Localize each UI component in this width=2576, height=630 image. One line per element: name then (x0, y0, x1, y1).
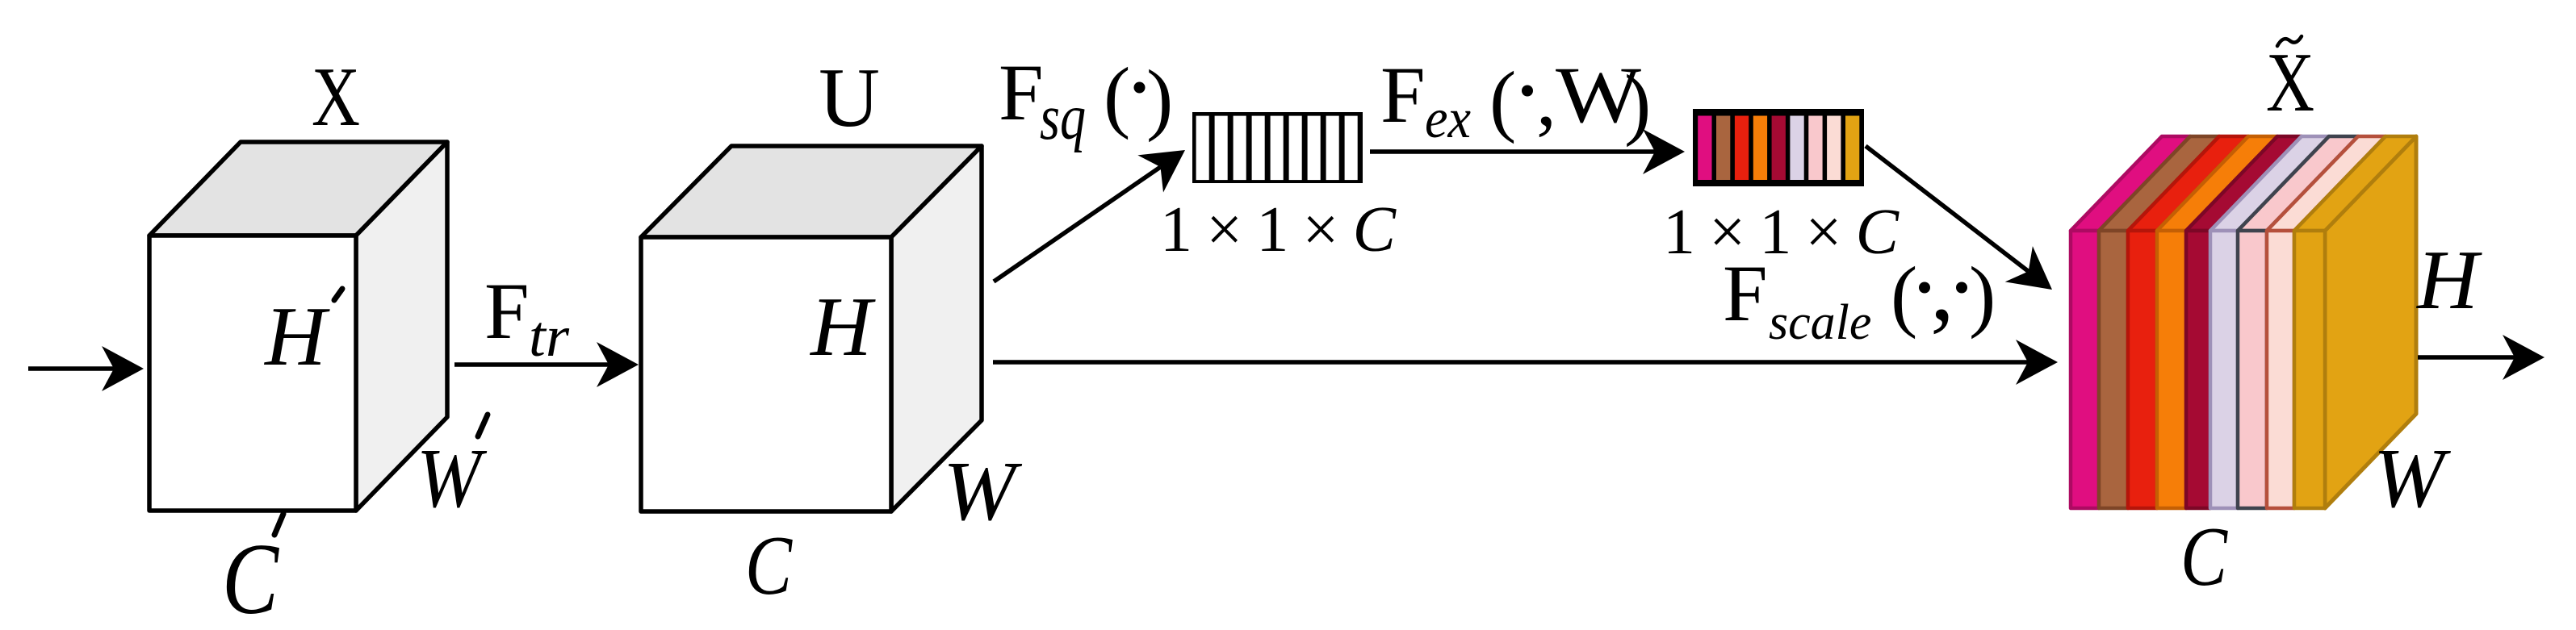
output cube slab 1 (2071, 136, 2190, 231)
svg-text:W: W (943, 444, 1023, 538)
svg-text:): ) (1624, 58, 1651, 148)
svg-text:(: ( (1104, 51, 1130, 140)
svg-text:C: C (222, 524, 280, 630)
svg-text:1 × 1 × C: 1 × 1 × C (1663, 197, 1900, 268)
svg-text:,: , (1536, 53, 1556, 143)
svg-text:C: C (2180, 509, 2229, 603)
svg-text:W: W (2373, 431, 2452, 525)
svg-text:ex: ex (1425, 88, 1471, 150)
svg-text:1 × 1 × C: 1 × 1 × C (1160, 194, 1397, 265)
output cube slab 6 (2210, 136, 2329, 231)
svg-text:tr: tr (529, 304, 570, 369)
arrow F_ex (1370, 149, 1655, 154)
squeeze vector bar 1x1xC (white cells) (1192, 112, 1363, 183)
svg-text:X: X (2266, 35, 2314, 129)
arrow long skip connection (993, 360, 2028, 365)
arrow F_sq (994, 167, 1161, 282)
tensor cube X front face (149, 236, 356, 511)
output cube slab 8 (2267, 136, 2385, 231)
arrow F_tr (454, 362, 609, 367)
output cube slab 7 (2238, 136, 2358, 231)
svg-text:): ) (1146, 53, 1173, 143)
tensor cube U right face (891, 146, 982, 511)
svg-text:sq: sq (1040, 82, 1086, 153)
svg-text:H: H (263, 289, 330, 383)
svg-text:H: H (809, 279, 876, 373)
svg-text:F: F (999, 48, 1044, 137)
output cube slab 3 (2128, 136, 2248, 231)
svg-text:(: ( (1489, 55, 1516, 144)
svg-text:F: F (1380, 50, 1426, 140)
svg-text:U: U (819, 50, 880, 144)
svg-text:scale: scale (1769, 295, 1871, 350)
output cube slab 5 (2186, 136, 2302, 231)
svg-text:(: ( (1891, 250, 1917, 340)
output cube slab 2 (2099, 136, 2219, 231)
tensor cube X right face (356, 142, 447, 511)
output cube slab 4 (2157, 136, 2277, 231)
tensor cube U front face (641, 237, 891, 511)
output cube X~ gold right face (2325, 136, 2416, 508)
svg-text:C: C (745, 518, 794, 612)
tensor cube U top face (641, 146, 982, 237)
svg-text:): ) (1969, 250, 1996, 340)
svg-text:W: W (417, 431, 488, 525)
excitation vector bar 1x1xC (colored cells) (1693, 109, 1864, 186)
svg-text:H: H (2415, 232, 2482, 327)
input arrow (28, 366, 114, 371)
svg-text:F: F (1723, 248, 1768, 338)
tensor cube X top face (149, 142, 447, 236)
svg-text:F: F (484, 266, 530, 356)
svg-text:,: , (1930, 233, 1954, 340)
svg-text:X: X (312, 49, 360, 144)
output arrow (2418, 355, 2515, 360)
output cube slab 9 (2294, 136, 2416, 231)
arrow F_scale (from excitation bar) (1866, 146, 2029, 271)
